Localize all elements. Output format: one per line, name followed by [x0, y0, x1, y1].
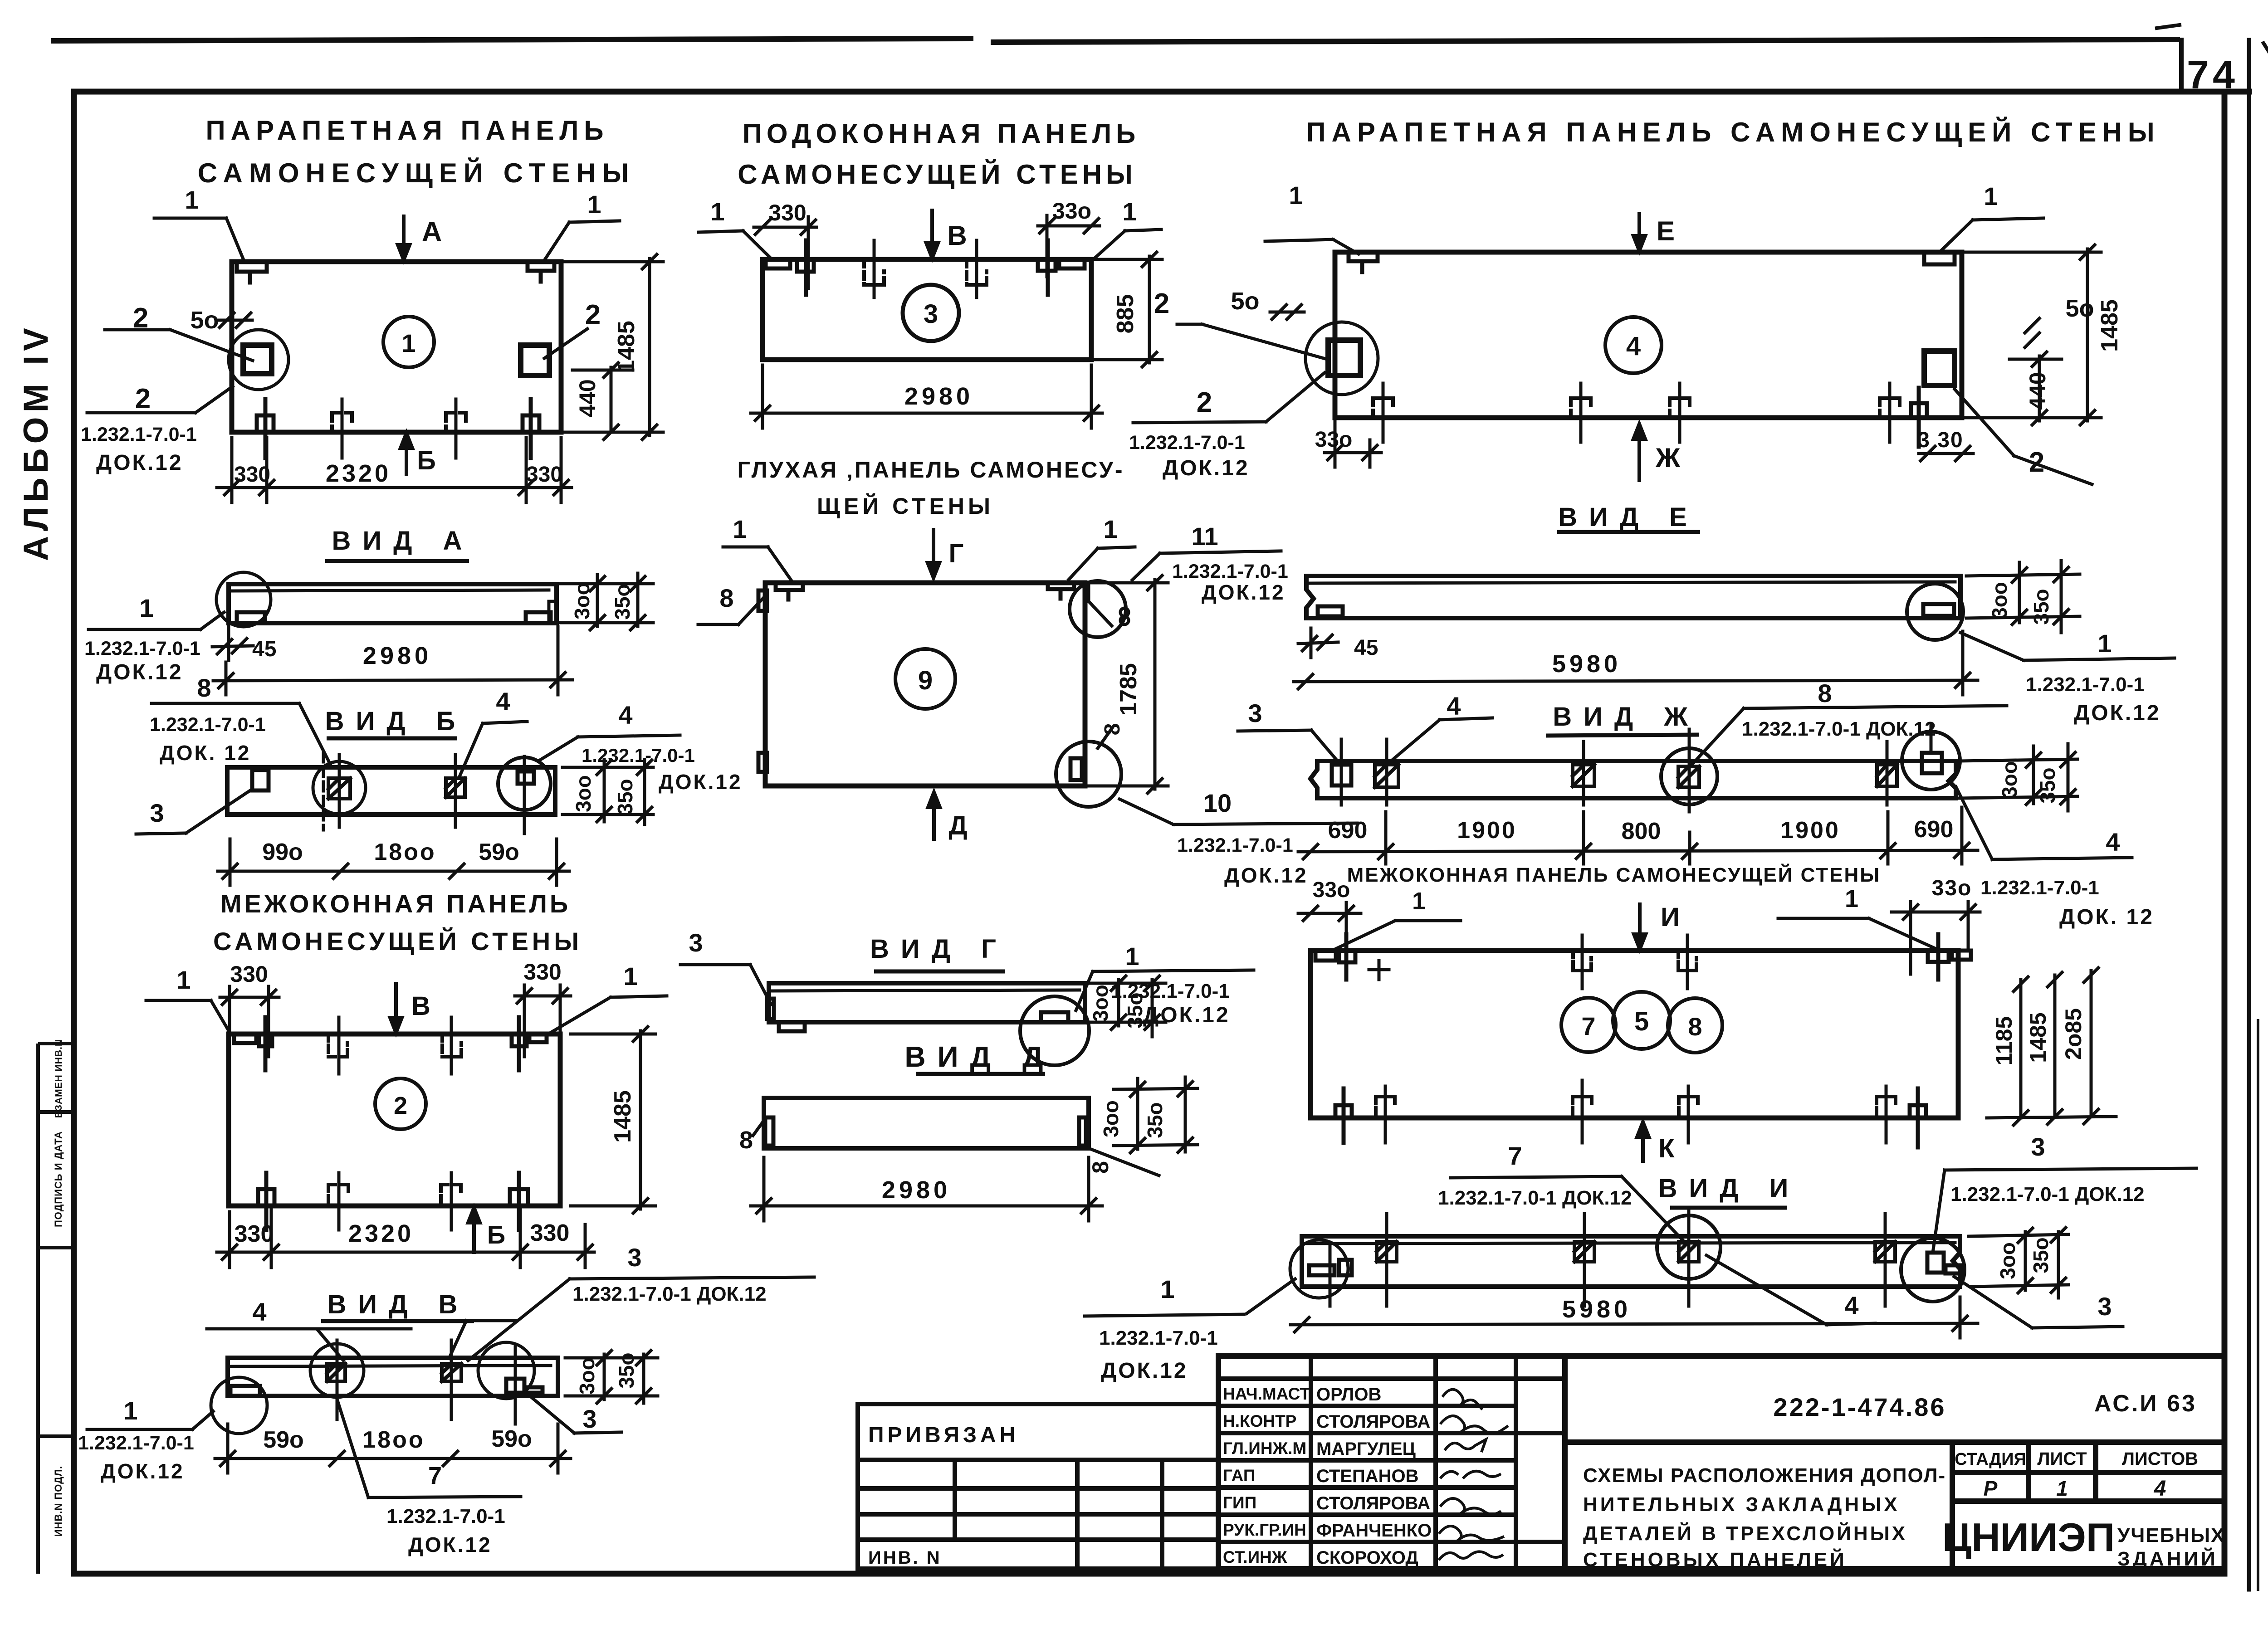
svg-text:3: 3	[150, 799, 164, 827]
svg-text:8: 8	[1818, 679, 1832, 707]
svg-text:ГАП: ГАП	[1223, 1466, 1255, 1485]
dim line p2 bottom	[217, 1209, 594, 1268]
svg-text:ВИД Д: ВИД Д	[904, 1040, 1055, 1073]
svg-text:ВИД Г: ВИД Г	[870, 934, 1008, 964]
svg-text:2320: 2320	[326, 460, 391, 487]
svg-text:1.232.1-7.0-1: 1.232.1-7.0-1	[582, 745, 695, 766]
svg-text:5: 5	[1634, 1007, 1649, 1036]
section arrow V p2	[390, 984, 402, 1033]
svg-text:3: 3	[689, 928, 703, 957]
svg-text:1.232.1-7.0-1: 1.232.1-7.0-1	[1177, 834, 1293, 856]
section arrow V	[926, 210, 938, 258]
svg-text:330: 330	[530, 1220, 570, 1246]
stamp table	[1218, 1356, 1565, 1569]
leader 2 lower	[87, 386, 233, 413]
leader 1 left p758	[1336, 921, 1461, 949]
svg-text:1.232.1-7.0-1 ДОК.12: 1.232.1-7.0-1 ДОК.12	[1438, 1187, 1632, 1209]
panel 758 top-left cross marks	[1369, 961, 1389, 980]
leader 8 right vid D	[1089, 1148, 1159, 1176]
svg-text:1.232.1-7.0-1: 1.232.1-7.0-1	[84, 638, 200, 659]
svg-text:Б: Б	[487, 1220, 505, 1249]
svg-text:1.232.1-7.0-1: 1.232.1-7.0-1	[1980, 877, 2099, 899]
svg-text:3оо: 3оо	[1089, 985, 1112, 1022]
svg-text:35о: 35о	[2029, 589, 2053, 624]
svg-text:3оо: 3оо	[575, 1357, 599, 1395]
dim 2980 vid A	[213, 627, 572, 695]
svg-text:ФРАНЧЕНКО: ФРАНЧЕНКО	[1316, 1521, 1432, 1541]
leader 1 left p2	[146, 1000, 230, 1032]
svg-text:11: 11	[1191, 522, 1218, 551]
svg-text:НАЧ.МАСТ: НАЧ.МАСТ	[1223, 1385, 1310, 1403]
dim line vid V	[215, 1424, 571, 1473]
svg-text:330: 330	[230, 961, 268, 987]
svg-text:СТ.ИНЖ: СТ.ИНЖ	[1223, 1548, 1287, 1566]
svg-text:1900: 1900	[1780, 817, 1840, 844]
svg-text:5о: 5о	[2065, 295, 2094, 322]
svg-text:Г: Г	[949, 539, 964, 568]
vid V circle right	[478, 1342, 534, 1399]
vid Zh plain embed left	[1332, 765, 1351, 785]
svg-text:ГЛ.ИНЖ.М: ГЛ.ИНЖ.М	[1223, 1439, 1306, 1458]
leader 3 vid Zh	[1238, 730, 1339, 763]
svg-text:3оо: 3оо	[572, 775, 595, 812]
svg-text:330: 330	[523, 959, 561, 985]
svg-text:МЕЖОКОННАЯ ПАНЕЛЬ: МЕЖОКОННАЯ ПАНЕЛЬ	[220, 889, 571, 918]
svg-text:1.232.1-7.0-1 ДОК.12: 1.232.1-7.0-1 ДОК.12	[1742, 718, 1936, 740]
vid E plate left	[1318, 606, 1343, 616]
svg-text:690: 690	[1328, 817, 1368, 844]
leader 4 right vid Zh	[1956, 787, 2132, 859]
vid G circle right	[1020, 996, 1089, 1065]
leader 7 vid V	[337, 1399, 521, 1497]
section arrow A	[398, 216, 410, 260]
svg-text:ДОК. 12: ДОК. 12	[160, 741, 251, 765]
svg-text:7: 7	[428, 1462, 442, 1489]
panel 3 top-right plates	[1038, 240, 1085, 295]
svg-text:35о: 35о	[2036, 767, 2059, 803]
svg-text:2: 2	[585, 299, 601, 331]
embed 2 right square	[521, 345, 549, 376]
svg-text:7: 7	[1508, 1141, 1522, 1170]
dim 1485 p4	[1965, 245, 2101, 425]
svg-text:3оо: 3оо	[1988, 582, 2011, 619]
svg-text:ПОДОКОННАЯ ПАНЕЛЬ: ПОДОКОННАЯ ПАНЕЛЬ	[743, 118, 1140, 149]
svg-text:МАРГУЛЕЦ: МАРГУЛЕЦ	[1316, 1439, 1416, 1459]
svg-text:440: 440	[2025, 372, 2050, 410]
vid A bar	[229, 584, 557, 623]
svg-text:800: 800	[1622, 818, 1661, 844]
vid B circle embed 1	[313, 761, 366, 814]
vid D bar	[764, 1098, 1089, 1148]
svg-text:ВИД Е: ВИД Е	[1558, 502, 1699, 532]
circle mark 9	[895, 649, 955, 709]
offset 50 ticks p4 left	[1270, 305, 1304, 319]
svg-text:885: 885	[1112, 294, 1139, 334]
svg-text:НИТЕЛЬНЫХ ЗАКЛАДНЫХ: НИТЕЛЬНЫХ ЗАКЛАДНЫХ	[1583, 1493, 1900, 1516]
vid B circle right	[498, 757, 551, 810]
panel 9 left edge notch top	[758, 590, 767, 611]
svg-text:1: 1	[623, 962, 637, 990]
svg-text:ДОК.12: ДОК.12	[659, 770, 743, 794]
svg-text:1: 1	[733, 515, 747, 543]
svg-text:СТЕНОВЫХ ПАНЕЛЕЙ: СТЕНОВЫХ ПАНЕЛЕЙ	[1583, 1548, 1847, 1571]
svg-text:СХЕМЫ РАСПОЛОЖЕНИЯ ДОПОЛ-: СХЕМЫ РАСПОЛОЖЕНИЯ ДОПОЛ-	[1583, 1464, 1946, 1487]
leader 3 bottom vid I	[1954, 1277, 2123, 1328]
svg-text:1: 1	[1122, 197, 1136, 226]
svg-text:7: 7	[1581, 1012, 1595, 1040]
vid V circle left	[211, 1377, 267, 1434]
svg-text:3оо: 3оо	[1996, 1242, 2019, 1279]
leader 1 right p2	[550, 996, 667, 1033]
svg-text:3: 3	[1248, 699, 1262, 727]
svg-text:ДОК.12: ДОК.12	[101, 1459, 185, 1483]
dims 300 350 vid B	[562, 760, 653, 824]
leader 2 right p4	[1955, 389, 2092, 484]
dim 330 right p758	[1892, 902, 1980, 974]
svg-text:ДОК.12: ДОК.12	[1163, 456, 1250, 480]
main description	[1583, 1464, 1946, 1571]
dims 300 350 vid E	[1966, 561, 2080, 633]
svg-text:ГЛУХАЯ ‚ПАНЕЛЬ САМОНЕСУ-: ГЛУХАЯ ‚ПАНЕЛЬ САМОНЕСУ-	[737, 457, 1124, 483]
svg-text:1785: 1785	[1115, 663, 1142, 716]
vid V circle embed 1	[310, 1344, 364, 1397]
vid V bar	[228, 1358, 558, 1396]
dims 300 350 vid G	[1089, 976, 1166, 1037]
svg-text:1: 1	[1125, 942, 1139, 971]
svg-text:35о: 35о	[615, 1352, 638, 1388]
panel 758 top-left plates	[1315, 934, 1355, 980]
vid I circle mid	[1657, 1215, 1721, 1279]
svg-text:1.232.1-7.0-1: 1.232.1-7.0-1	[150, 714, 266, 736]
svg-text:1485: 1485	[2097, 299, 2123, 352]
leader 10 p9	[1119, 799, 1357, 824]
leader 1 bottom-left vid I	[1083, 1278, 1296, 1316]
svg-text:1: 1	[587, 190, 601, 219]
leader 4 second vid B	[540, 735, 680, 760]
svg-text:2о85: 2о85	[2061, 1008, 2086, 1060]
svg-text:АС.И 63: АС.И 63	[2094, 1390, 2197, 1417]
svg-text:9: 9	[918, 666, 933, 695]
offset 50 ticks	[217, 313, 252, 327]
svg-text:ДОК. 12: ДОК. 12	[2059, 905, 2154, 929]
svg-text:2320: 2320	[348, 1220, 414, 1247]
leader 2 upper-left p4	[1177, 324, 1327, 359]
panel 4 top-right plate	[1924, 252, 1955, 264]
circle mark 5	[1613, 992, 1670, 1049]
svg-text:4: 4	[618, 701, 632, 729]
svg-text:59о: 59о	[491, 1426, 532, 1452]
vid Zh hatched embed 4	[1877, 765, 1897, 786]
svg-text:САМОНЕСУЩЕЙ СТЕНЫ: САМОНЕСУЩЕЙ СТЕНЫ	[198, 158, 635, 188]
leader 1 right p3	[1093, 229, 1161, 259]
vid I hatched embed 1	[1377, 1242, 1397, 1262]
dims 300 350 vid V	[565, 1351, 658, 1403]
svg-text:САМОНЕСУЩЕЙ СТЕНЫ: САМОНЕСУЩЕЙ СТЕНЫ	[738, 159, 1137, 190]
svg-text:8: 8	[719, 584, 733, 612]
leader 3 top vid I	[1933, 1168, 2196, 1249]
svg-text:1.232.1-7.0-1: 1.232.1-7.0-1	[1099, 1327, 1218, 1349]
svg-text:1.232.1-7.0-1 ДОК.12: 1.232.1-7.0-1 ДОК.12	[1950, 1183, 2145, 1205]
svg-text:10: 10	[1203, 789, 1232, 817]
svg-text:Ж: Ж	[1655, 443, 1681, 473]
svg-text:1.232.1-7.0-1: 1.232.1-7.0-1	[78, 1432, 194, 1454]
panel 1 top-left plate	[237, 262, 267, 283]
privyazan table	[858, 1404, 1218, 1569]
leader 1 top-right p4	[1941, 218, 2043, 250]
dim 5980 vid I	[1290, 1297, 1978, 1338]
circle mark 1	[383, 317, 434, 367]
svg-text:ВИД А: ВИД А	[332, 526, 474, 556]
svg-text:ПОДПИСЬ И ДАТА: ПОДПИСЬ И ДАТА	[53, 1131, 64, 1227]
leader 1 right p9	[1069, 547, 1135, 580]
svg-text:1.232.1-7.0-1: 1.232.1-7.0-1	[386, 1505, 505, 1527]
vid V plate bottom-left	[230, 1386, 260, 1396]
svg-text:2: 2	[2029, 447, 2044, 478]
leader 4 vid V	[207, 1329, 411, 1361]
vid A detail circle left	[216, 572, 271, 627]
title block frame	[1565, 1356, 2224, 1569]
svg-text:330: 330	[235, 1221, 274, 1247]
dim 2980 vid D	[751, 1157, 1102, 1221]
dim 2980 p3	[751, 365, 1102, 428]
panel 1 bottom embeds	[257, 399, 274, 458]
dim 330 bottom-left p4	[1325, 422, 1381, 467]
panel 4 bottom embeds	[1373, 398, 1393, 418]
svg-text:1485: 1485	[2025, 1012, 2051, 1063]
svg-text:35о: 35о	[2029, 1237, 2053, 1273]
dims 300 350 vid I	[1969, 1228, 2068, 1298]
dim 330 top-left p2	[220, 986, 279, 1057]
svg-text:ЗДАНИЙ: ЗДАНИЙ	[2117, 1547, 2218, 1570]
detail circle left p4	[1305, 322, 1378, 395]
circle mark 8c	[1668, 998, 1722, 1053]
vid E circle right	[1907, 584, 1963, 640]
svg-text:33о: 33о	[1052, 198, 1091, 224]
leader 1 right p758	[1778, 918, 1936, 949]
svg-text:99о: 99о	[262, 839, 303, 865]
stamp names column1	[1223, 1385, 1310, 1566]
svg-text:ИНВ. N: ИНВ. N	[868, 1548, 942, 1568]
svg-text:35о: 35о	[613, 779, 637, 815]
svg-text:РУК.ГР.ИН: РУК.ГР.ИН	[1223, 1521, 1306, 1539]
detail circle left	[229, 330, 288, 390]
dim 330 top-left p3	[754, 217, 816, 288]
leader 1 vid G	[1076, 970, 1254, 1010]
svg-text:1.232.1-7.0-1: 1.232.1-7.0-1	[81, 424, 197, 445]
svg-text:ВИД Б: ВИД Б	[325, 707, 467, 736]
triple dim 1185 1485 2085	[1987, 968, 2116, 1125]
vid V hatched embed 2	[442, 1364, 461, 1381]
leader 1 right	[544, 221, 620, 260]
svg-text:Б: Б	[417, 446, 436, 475]
svg-text:СТОЛЯРОВА: СТОЛЯРОВА	[1316, 1493, 1430, 1513]
vid Zh bar	[1310, 761, 1956, 798]
vid Zh hatched embed 3	[1678, 766, 1699, 787]
bottom dimension line	[217, 438, 572, 502]
svg-text:1.232.1-7.0-1: 1.232.1-7.0-1	[2026, 673, 2145, 696]
svg-text:1: 1	[1412, 888, 1426, 915]
svg-text:ДЕТАЛЕЙ В ТРЕХСЛОЙНЫХ: ДЕТАЛЕЙ В ТРЕХСЛОЙНЫХ	[1583, 1522, 1907, 1545]
dim 45 vid A	[212, 627, 253, 660]
svg-text:1185: 1185	[1991, 1016, 2017, 1065]
leader 4 left vid Zh	[1389, 718, 1492, 763]
svg-text:33о: 33о	[1315, 428, 1353, 452]
circle mark 4	[1605, 317, 1662, 373]
vid I plates right	[1927, 1253, 1964, 1273]
svg-text:5980: 5980	[1552, 650, 1621, 678]
dim line vid B	[218, 839, 569, 885]
svg-text:3: 3	[627, 1243, 641, 1272]
embed 2 left square p4	[1328, 340, 1360, 376]
leader 1 top-left p4	[1265, 239, 1359, 254]
leader 3 vid B	[136, 789, 252, 834]
svg-text:А: А	[422, 216, 442, 248]
dim 45 vid E	[1298, 628, 1338, 658]
dim 330 top-right p2	[515, 985, 571, 1057]
svg-text:ОРЛОВ: ОРЛОВ	[1316, 1385, 1381, 1405]
svg-text:1.232.1-7.0-1: 1.232.1-7.0-1	[1129, 432, 1245, 454]
svg-text:4: 4	[1626, 332, 1641, 361]
svg-text:1: 1	[139, 594, 153, 622]
svg-text:ВЗАМЕН ИНВ.N: ВЗАМЕН ИНВ.N	[54, 1039, 64, 1118]
svg-text:330: 330	[768, 200, 806, 225]
svg-text:1.232.1-7.0-1: 1.232.1-7.0-1	[1172, 561, 1288, 582]
section arrow E	[1633, 214, 1645, 251]
svg-text:1: 1	[1845, 885, 1858, 912]
leader 8 left vid D	[753, 1119, 765, 1136]
svg-text:4: 4	[2154, 1477, 2166, 1501]
dim 1485	[565, 254, 663, 439]
svg-text:18оо: 18оо	[362, 1427, 425, 1453]
section arrow ZH	[1633, 424, 1645, 480]
panel 9 outline	[765, 583, 1085, 786]
panel 758 outline	[1310, 951, 1958, 1118]
svg-text:2980: 2980	[882, 1176, 951, 1204]
svg-text:2: 2	[135, 383, 151, 415]
panel 4 outline	[1335, 252, 1962, 418]
svg-text:1: 1	[1160, 1275, 1174, 1303]
dims 300 350 vid A	[557, 573, 653, 630]
panel 2 top dashed marks	[328, 1034, 347, 1057]
panel 9 top-left plate	[776, 583, 803, 600]
svg-text:ПАРАПЕТНАЯ ПАНЕЛЬ САМОНЕСУЩЕ: ПАРАПЕТНАЯ ПАНЕЛЬ САМОНЕСУЩЕЙ СТЕНЫ	[1306, 117, 2160, 147]
vid D notch right	[1079, 1117, 1086, 1146]
svg-text:222-1-474.86: 222-1-474.86	[1773, 1393, 1946, 1421]
panel 2 top-right plates	[512, 1017, 547, 1070]
svg-text:4: 4	[496, 687, 510, 716]
svg-text:3: 3	[582, 1405, 596, 1433]
svg-text:2: 2	[1197, 387, 1212, 418]
svg-text:ВИД Ж: ВИД Ж	[1553, 702, 1699, 732]
svg-text:8: 8	[1088, 1161, 1113, 1174]
vid B vertical ticks	[323, 753, 524, 834]
vid A plate bottom-left	[237, 612, 265, 623]
dim 330 top-right p3	[1038, 215, 1100, 277]
panel 9 top-right plate	[1048, 583, 1074, 599]
svg-text:1.232.1-7.0-1: 1.232.1-7.0-1	[1111, 980, 1230, 1002]
vid G plate below left	[779, 1022, 805, 1031]
vid B bar	[227, 767, 555, 815]
svg-text:Н.КОНТР: Н.КОНТР	[1223, 1412, 1296, 1430]
svg-text:ВИД И: ВИД И	[1658, 1174, 1800, 1203]
svg-text:САМОНЕСУЩЕЙ СТЕНЫ: САМОНЕСУЩЕЙ СТЕНЫ	[213, 927, 582, 956]
svg-text:18оо: 18оо	[374, 839, 436, 865]
leader 3 bottom vid V	[524, 1391, 621, 1433]
dim 885	[1095, 252, 1162, 367]
section arrow G	[928, 530, 939, 578]
dim 1485 p2	[571, 1027, 655, 1213]
svg-text:ЦНИИЭП: ЦНИИЭП	[1942, 1515, 2115, 1560]
vid G plate right	[1041, 1012, 1068, 1022]
svg-text:СТЕПАНОВ: СТЕПАНОВ	[1316, 1466, 1419, 1486]
signatures	[1439, 1390, 1508, 1560]
svg-text:ДОК.12: ДОК.12	[1202, 580, 1286, 604]
leader 7 vid I	[1451, 1176, 1686, 1244]
vid B plate right	[518, 771, 534, 784]
svg-text:8: 8	[197, 673, 211, 702]
vid I circle right	[1901, 1238, 1965, 1302]
vid B plate left	[252, 770, 269, 790]
panel 4 top-left plate	[1349, 252, 1378, 272]
leader 2 lower-left p4	[1133, 373, 1325, 423]
svg-text:690: 690	[1914, 816, 1954, 843]
svg-text:ВИД В: ВИД В	[327, 1290, 469, 1319]
vid Zh vertical ticks	[1341, 726, 1931, 812]
leader 4 first vid B	[460, 722, 527, 776]
svg-text:5980: 5980	[1562, 1296, 1631, 1323]
svg-text:3оо: 3оо	[570, 582, 594, 619]
leader 8 vid Zh	[1691, 706, 2007, 766]
svg-text:1: 1	[1289, 181, 1303, 210]
svg-text:8: 8	[1100, 723, 1124, 736]
leader 2 upper	[105, 330, 253, 361]
panel 758 top-right plates	[1928, 934, 1971, 980]
circle mark 2	[375, 1078, 426, 1129]
leader 3 vid G	[680, 965, 771, 1005]
vid D notch left	[765, 1117, 773, 1146]
vid I hatched embed 4	[1875, 1242, 1895, 1262]
left margin column	[38, 1044, 74, 1574]
svg-text:8: 8	[1688, 1012, 1702, 1041]
svg-text:1: 1	[401, 329, 415, 357]
dims 300 350 vid Zh	[1960, 744, 2077, 811]
leader 8 vid B	[152, 703, 330, 764]
embed 2 left square	[243, 345, 272, 374]
vid G bar	[769, 983, 1085, 1022]
svg-text:1: 1	[2097, 629, 2112, 658]
svg-text:35о: 35о	[611, 584, 634, 619]
svg-text:3 30: 3 30	[1917, 428, 1963, 452]
leader 1 left p3	[699, 231, 771, 259]
svg-text:ПАРАПЕТНАЯ ПАНЕЛЬ: ПАРАПЕТНАЯ ПАНЕЛЬ	[205, 115, 609, 146]
svg-text:1: 1	[123, 1396, 137, 1425]
section arrow B lower	[401, 433, 412, 474]
vid V hatched embed 1	[327, 1364, 345, 1381]
section arrow D	[928, 792, 940, 839]
circle mark 7	[1561, 998, 1616, 1052]
leader 8 bottom-right p9	[1098, 728, 1112, 748]
section arrow K	[1637, 1122, 1649, 1161]
svg-text:8: 8	[739, 1127, 753, 1154]
svg-text:АЛЬБОМ IV: АЛЬБОМ IV	[17, 323, 55, 561]
vid I vertical ticks	[1330, 1210, 1885, 1306]
panel 3 top dashed marks	[864, 259, 884, 285]
vid I bar	[1302, 1236, 1960, 1287]
svg-text:1: 1	[1103, 515, 1117, 543]
dims 300 350 vid D	[1114, 1077, 1198, 1153]
leader 1 left	[154, 218, 244, 260]
leader 2 right	[544, 329, 587, 358]
